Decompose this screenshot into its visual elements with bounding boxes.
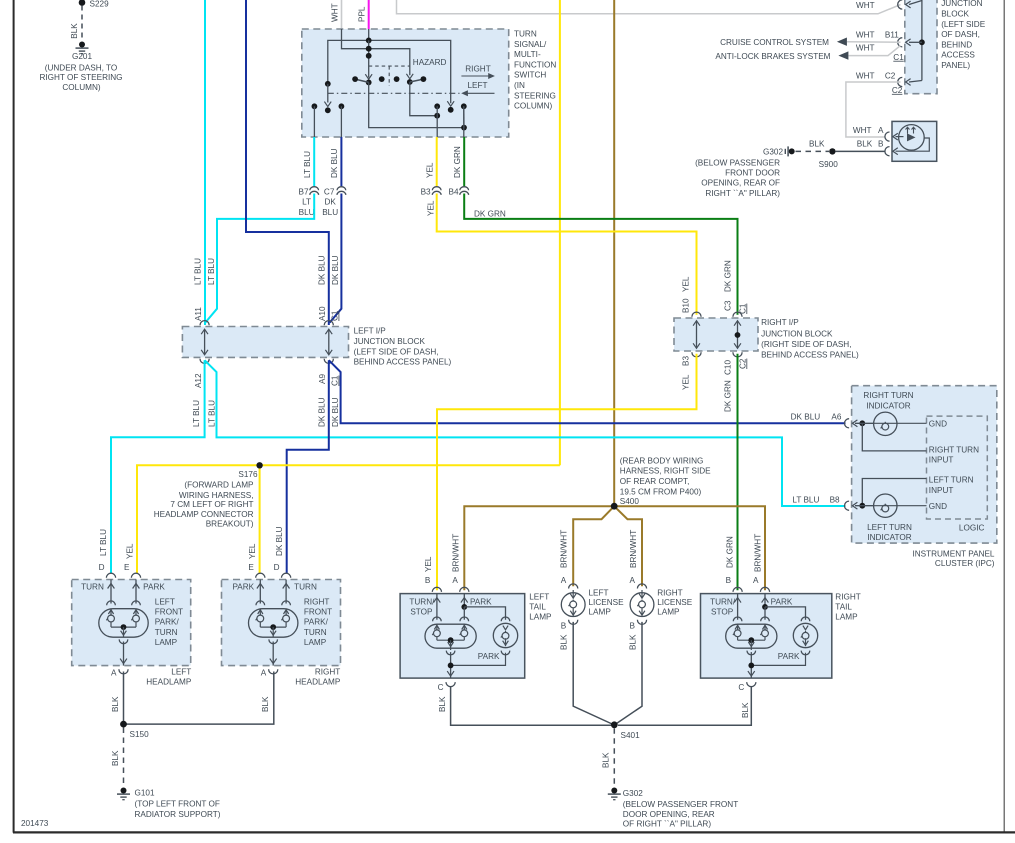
turn signal linkage dashed <box>328 92 460 94</box>
svg-text:SWITCH: SWITCH <box>514 71 546 80</box>
svg-text:DK BLU: DK BLU <box>331 397 340 427</box>
svg-text:PANEL): PANEL) <box>941 61 970 70</box>
ground G302 right <box>789 148 795 154</box>
pin feeds <box>436 594 438 620</box>
pin B10 <box>692 312 701 317</box>
svg-text:A12: A12 <box>194 373 203 388</box>
bulb dual filament turn/stop <box>433 617 442 621</box>
wire WHT to junction block <box>397 0 901 14</box>
svg-text:LAMP: LAMP <box>304 638 327 647</box>
svg-text:HEADLAMP: HEADLAMP <box>146 678 192 687</box>
turn switch left section <box>325 81 331 87</box>
svg-text:(IN: (IN <box>514 81 525 90</box>
lamp box LEFT tail <box>400 594 525 679</box>
bulb right turn indicator <box>859 420 865 426</box>
wire WHT anti-lock brakes to B11 <box>848 46 900 56</box>
svg-text:PARK: PARK <box>778 652 800 661</box>
svg-text:LT BLU: LT BLU <box>192 400 201 427</box>
bulb left turn indicator <box>859 503 865 509</box>
svg-text:MULTI-: MULTI- <box>514 50 541 59</box>
svg-text:LAMP: LAMP <box>657 608 680 617</box>
svg-text:BLK: BLK <box>261 696 270 712</box>
svg-text:B3: B3 <box>421 188 431 197</box>
pin A12 <box>200 359 209 364</box>
svg-text:BLOCK: BLOCK <box>941 10 969 19</box>
svg-text:WHT: WHT <box>856 71 875 80</box>
svg-text:GND: GND <box>929 420 947 429</box>
svg-text:SIGNAL/: SIGNAL/ <box>514 40 547 49</box>
wire LT BLU A12 to left front lamp <box>111 360 205 573</box>
svg-text:BLK: BLK <box>809 139 825 148</box>
svg-text:BLK: BLK <box>857 139 873 148</box>
svg-text:LEFT: LEFT <box>467 81 487 90</box>
svg-text:DK GRN: DK GRN <box>724 380 733 412</box>
svg-text:OPENING, REAR OF: OPENING, REAR OF <box>701 179 780 188</box>
svg-text:B4: B4 <box>448 188 458 197</box>
svg-text:DK BLU: DK BLU <box>791 413 821 422</box>
svg-text:LAMP: LAMP <box>835 613 858 622</box>
svg-text:LT BLU: LT BLU <box>207 258 216 285</box>
svg-text:PARK: PARK <box>478 652 500 661</box>
svg-text:RIGHT OF STEERING: RIGHT OF STEERING <box>39 73 122 82</box>
svg-text:ACCESS: ACCESS <box>941 51 975 60</box>
svg-text:HEADLAMP: HEADLAMP <box>295 678 341 687</box>
svg-text:A11: A11 <box>194 307 203 321</box>
svg-text:WHT: WHT <box>856 1 875 10</box>
svg-text:A: A <box>878 126 884 135</box>
connector B7 LT BLU <box>313 137 315 188</box>
svg-text:WHT: WHT <box>856 43 875 52</box>
svg-text:BLK: BLK <box>111 696 120 712</box>
svg-text:LAMP: LAMP <box>589 608 612 617</box>
svg-text:A9: A9 <box>318 374 327 384</box>
svg-text:LEFT I/P: LEFT I/P <box>354 327 387 336</box>
logic box <box>927 416 988 519</box>
pin A output <box>123 642 125 666</box>
wire DK BLU A9 to IPC A6 <box>329 360 846 423</box>
svg-text:INPUT: INPUT <box>929 486 954 495</box>
connector B3 YEL <box>436 137 438 188</box>
svg-text:RIGHT TURN: RIGHT TURN <box>929 445 979 454</box>
page border left <box>13 0 15 833</box>
wire BRN/WHT S400 to left tail lamp <box>464 506 614 590</box>
svg-text:JUNCTION BLOCK: JUNCTION BLOCK <box>354 337 426 346</box>
wire BLK right tail lamp to S401 <box>618 686 751 725</box>
svg-text:TAIL: TAIL <box>529 603 546 612</box>
svg-text:19.5 CM FROM P400): 19.5 CM FROM P400) <box>620 487 702 496</box>
svg-text:BLU: BLU <box>299 208 315 217</box>
switch internal bus upper <box>328 40 451 103</box>
svg-text:B: B <box>726 576 732 585</box>
svg-text:YEL: YEL <box>427 200 436 216</box>
svg-text:COLUMN): COLUMN) <box>514 102 552 111</box>
svg-text:DK GRN: DK GRN <box>474 209 506 218</box>
pin B11 <box>898 38 903 47</box>
svg-text:LAMP: LAMP <box>529 613 552 622</box>
svg-text:E: E <box>124 563 130 572</box>
splice S900 <box>829 148 835 154</box>
svg-text:S900: S900 <box>819 160 839 169</box>
svg-text:BLK: BLK <box>438 696 447 712</box>
connector A6 <box>844 419 849 428</box>
svg-text:(UNDER DASH, TO: (UNDER DASH, TO <box>45 64 117 73</box>
junction block right I/P <box>674 318 758 351</box>
svg-text:TURN: TURN <box>81 582 104 591</box>
wire LT BLU A12 to IPC B8 <box>205 360 846 506</box>
svg-text:BRN/WHT: BRN/WHT <box>629 530 638 568</box>
svg-text:A: A <box>261 668 267 677</box>
svg-text:BRN/WHT: BRN/WHT <box>451 534 460 572</box>
svg-text:S150: S150 <box>130 730 150 739</box>
splice S176 <box>256 462 262 468</box>
splice S229 <box>79 0 86 6</box>
svg-text:(REAR BODY WIRING: (REAR BODY WIRING <box>620 456 704 465</box>
svg-text:BEHIND ACCESS PANEL): BEHIND ACCESS PANEL) <box>761 351 859 360</box>
wire LT BLU B7 to A11 <box>205 194 314 323</box>
bulb dual filament <box>259 580 261 604</box>
wire BLK S900 to G302 <box>796 150 830 152</box>
svg-text:WHT: WHT <box>853 126 872 135</box>
bulb park round <box>501 617 510 621</box>
svg-text:C2: C2 <box>892 86 903 95</box>
svg-text:CRUISE CONTROL SYSTEM: CRUISE CONTROL SYSTEM <box>720 38 829 47</box>
svg-text:RIGHT I/P: RIGHT I/P <box>761 318 799 327</box>
wire BLK left tail lamp to S401 <box>451 686 611 725</box>
wire YEL trunk from top <box>559 0 561 465</box>
wire BLK left headlamp to S150 <box>123 672 125 725</box>
svg-text:LICENSE: LICENSE <box>589 598 625 607</box>
page border right <box>1003 0 1005 833</box>
svg-text:YEL: YEL <box>424 556 433 572</box>
svg-text:FUNCTION: FUNCTION <box>514 60 556 69</box>
svg-text:S229: S229 <box>90 0 110 9</box>
pin C output <box>748 671 755 676</box>
svg-text:A: A <box>111 668 117 677</box>
svg-text:C1: C1 <box>331 375 340 386</box>
svg-text:A: A <box>561 576 567 585</box>
svg-text:LT BLU: LT BLU <box>207 400 216 427</box>
svg-text:(FORWARD LAMP: (FORWARD LAMP <box>184 481 254 490</box>
junction block upper right <box>905 0 937 94</box>
bulb CHMSL <box>899 125 925 151</box>
lamp box RIGHT tail <box>701 594 832 679</box>
svg-text:D: D <box>274 563 280 572</box>
splice S400 <box>611 503 618 510</box>
pin top WHT <box>898 0 903 9</box>
switch wire hazard-right to B3 out <box>410 82 437 116</box>
svg-text:LEFT TURN: LEFT TURN <box>929 476 974 485</box>
svg-text:OF RIGHT ``A" PILLAR): OF RIGHT ``A" PILLAR) <box>623 820 712 829</box>
pin arcs and letters <box>106 573 115 578</box>
svg-text:E: E <box>248 563 254 572</box>
node A split <box>461 604 467 610</box>
wire BLK S150 to G101 <box>123 728 125 787</box>
svg-text:B: B <box>630 622 636 631</box>
hazard switch right pole <box>406 74 413 79</box>
svg-text:JUNCTION: JUNCTION <box>941 0 982 8</box>
svg-text:TURN: TURN <box>155 628 178 637</box>
svg-text:C1: C1 <box>893 53 904 62</box>
svg-text:STOP: STOP <box>410 608 433 617</box>
svg-text:CLUSTER (IPC): CLUSTER (IPC) <box>935 559 995 568</box>
svg-text:LEFT TURN: LEFT TURN <box>867 523 912 532</box>
svg-text:PARK/: PARK/ <box>304 618 329 627</box>
lamp left license <box>569 584 578 589</box>
wire LT BLU trunk to A11 <box>204 0 206 325</box>
svg-text:B: B <box>878 139 884 148</box>
svg-text:TURN: TURN <box>514 30 537 39</box>
svg-text:LT BLU: LT BLU <box>303 151 312 178</box>
wire hazard feed vertical <box>368 40 370 77</box>
pin A output <box>272 642 274 666</box>
wire YEL B3 to right junction B10 <box>437 194 697 315</box>
svg-text:201473: 201473 <box>21 819 49 828</box>
svg-text:B: B <box>425 576 431 585</box>
svg-text:(TOP LEFT FRONT OF: (TOP LEFT FRONT OF <box>135 800 220 809</box>
svg-text:A: A <box>630 576 636 585</box>
svg-text:INPUT: INPUT <box>929 456 954 465</box>
svg-text:B3: B3 <box>681 356 690 366</box>
svg-text:INSTRUMENT PANEL: INSTRUMENT PANEL <box>912 550 994 559</box>
svg-text:YEL: YEL <box>426 162 435 178</box>
wire YEL S176 branch to right front lamp <box>259 465 261 573</box>
splice S150 <box>120 721 127 728</box>
svg-text:RIGHT: RIGHT <box>835 593 860 602</box>
svg-text:YEL: YEL <box>681 374 690 390</box>
svg-text:DK BLU: DK BLU <box>318 397 327 427</box>
svg-text:PARK: PARK <box>771 597 793 606</box>
wire BRN/WHT S400 to right tail lamp <box>614 506 765 590</box>
wire BRN/WHT trunk from top to S400 <box>613 0 615 506</box>
svg-text:RADIATOR SUPPORT): RADIATOR SUPPORT) <box>135 810 221 819</box>
wire right turn input <box>862 423 926 451</box>
svg-text:DK: DK <box>325 197 337 206</box>
node ground join <box>751 653 805 666</box>
svg-text:OF DASH,: OF DASH, <box>941 30 980 39</box>
svg-text:BLK: BLK <box>602 752 611 768</box>
svg-text:JUNCTION BLOCK: JUNCTION BLOCK <box>761 330 833 339</box>
svg-text:RIGHT: RIGHT <box>304 598 329 607</box>
svg-text:BLK: BLK <box>741 702 750 718</box>
svg-text:YEL: YEL <box>248 543 257 559</box>
svg-text:LT: LT <box>302 197 311 206</box>
switch box turn signal/multi-function <box>302 29 509 137</box>
pin arcs B and A <box>733 587 742 592</box>
svg-text:LT BLU: LT BLU <box>792 495 819 504</box>
bulb dual filament <box>110 580 112 604</box>
svg-text:BLK: BLK <box>560 634 569 650</box>
pin arcs and letters <box>256 573 265 578</box>
splice S401 <box>611 721 618 728</box>
svg-text:(RIGHT SIDE OF DASH,: (RIGHT SIDE OF DASH, <box>761 340 851 349</box>
svg-text:DK GRN: DK GRN <box>453 146 462 178</box>
svg-text:PPL: PPL <box>358 6 367 22</box>
svg-text:(LEFT SIDE OF DASH,: (LEFT SIDE OF DASH, <box>354 347 439 356</box>
junction block internal bus <box>921 0 923 81</box>
svg-text:DOOR OPENING, REAR: DOOR OPENING, REAR <box>623 810 715 819</box>
svg-text:HAZARD: HAZARD <box>413 58 447 67</box>
svg-text:B7: B7 <box>298 188 308 197</box>
svg-text:INDICATOR: INDICATOR <box>866 402 910 411</box>
wire DK BLU C7 to A10 <box>330 194 342 323</box>
svg-text:DK GRN: DK GRN <box>724 260 733 292</box>
svg-text:BLK: BLK <box>628 634 637 650</box>
node A split <box>762 604 768 610</box>
connector B8 <box>844 501 849 510</box>
svg-text:G201: G201 <box>72 52 92 61</box>
svg-text:BLU: BLU <box>322 208 338 217</box>
svg-text:PARK: PARK <box>143 582 165 591</box>
svg-text:A6: A6 <box>831 413 841 422</box>
instrument panel cluster box <box>852 386 997 543</box>
wire BLK CHMSL to S900 <box>836 150 886 152</box>
wire BRN/WHT S400 to right license lamp <box>614 506 642 586</box>
bulb dual filament turn/stop <box>733 617 742 621</box>
svg-text:YEL: YEL <box>126 543 135 559</box>
svg-text:C: C <box>438 683 444 692</box>
svg-text:B8: B8 <box>830 495 840 504</box>
arrow cruise control system <box>837 38 847 46</box>
connector C7 DK BLU <box>340 137 342 188</box>
svg-text:(BELOW PASSENGER: (BELOW PASSENGER <box>695 159 780 168</box>
svg-text:B11: B11 <box>885 30 899 39</box>
junction block left I/P <box>182 327 348 358</box>
connector B CHMSL <box>885 147 890 156</box>
ground G101 <box>121 788 127 794</box>
wire left turn input <box>862 479 926 506</box>
svg-text:D: D <box>99 563 105 572</box>
wire WHT cruise control to B11 <box>847 41 901 44</box>
svg-text:TURN/: TURN/ <box>710 597 736 606</box>
bulb park round <box>801 617 810 621</box>
svg-text:PARK/: PARK/ <box>155 618 180 627</box>
svg-text:BEHIND: BEHIND <box>941 40 972 49</box>
ground G201 <box>79 42 85 48</box>
svg-text:C1: C1 <box>738 303 747 314</box>
svg-text:BRN/WHT: BRN/WHT <box>753 534 762 572</box>
svg-text:G302: G302 <box>623 789 643 798</box>
svg-text:C1: C1 <box>331 310 340 321</box>
switch internal bus lower WHT feed <box>342 29 410 75</box>
pin C3 <box>733 312 742 317</box>
svg-text:S400: S400 <box>620 497 640 506</box>
svg-text:B: B <box>561 622 567 631</box>
svg-text:DK BLU: DK BLU <box>318 255 327 285</box>
svg-text:LAMP: LAMP <box>155 638 178 647</box>
svg-text:LEFT: LEFT <box>529 593 549 602</box>
wire YEL B3 return to left tail lamp <box>437 354 697 591</box>
svg-text:BREAKOUT): BREAKOUT) <box>206 520 254 529</box>
wire DK GRN B4 to right junction C3 <box>464 194 737 315</box>
node ground join <box>451 653 506 666</box>
wire BLK right license lamp to S401 <box>614 622 642 725</box>
wire BLK left license lamp to S401 <box>573 622 614 725</box>
connector B4 DK GRN <box>463 137 465 188</box>
pin C output <box>447 671 454 676</box>
svg-text:TURN/: TURN/ <box>409 597 435 606</box>
svg-text:C2: C2 <box>738 358 747 369</box>
svg-text:GND: GND <box>929 502 947 511</box>
svg-text:WHT: WHT <box>856 30 875 39</box>
svg-text:DK BLU: DK BLU <box>275 526 284 556</box>
svg-text:RIGHT ``A" PILLAR): RIGHT ``A" PILLAR) <box>705 189 780 198</box>
wire BLK S229 to G201 <box>81 6 83 42</box>
svg-text:LEFT: LEFT <box>589 588 609 597</box>
wire BLK S401 to G302 <box>613 728 615 786</box>
svg-text:RIGHT TURN: RIGHT TURN <box>863 391 913 400</box>
svg-text:A: A <box>452 576 458 585</box>
switch wire hazard-left to B4 out <box>369 82 464 127</box>
svg-text:FRONT: FRONT <box>155 608 183 617</box>
svg-text:BLK: BLK <box>70 23 79 39</box>
svg-text:A: A <box>753 576 759 585</box>
wire DK BLU trunk to A10 <box>246 0 329 325</box>
wire WHT C2 to CHMSL <box>846 82 901 137</box>
svg-text:BRN/WHT: BRN/WHT <box>559 530 568 568</box>
node PPL junction <box>368 29 370 40</box>
svg-text:LICENSE: LICENSE <box>657 598 693 607</box>
lamp right license <box>637 584 646 589</box>
svg-text:STEERING: STEERING <box>514 91 556 100</box>
pin B3 bottom <box>692 352 701 357</box>
wire BRN/WHT S400 to left license lamp <box>573 506 614 586</box>
svg-text:WIRING HARNESS,: WIRING HARNESS, <box>179 491 254 500</box>
pin C2 <box>898 77 903 86</box>
svg-text:LT BLU: LT BLU <box>194 258 203 285</box>
svg-text:C10: C10 <box>724 360 733 375</box>
wire DK GRN C10 to right tail lamp <box>737 354 739 591</box>
wire BLK right headlamp to S150 <box>124 672 274 725</box>
svg-text:C: C <box>738 683 744 692</box>
svg-text:YEL: YEL <box>681 276 690 292</box>
svg-text:WHT: WHT <box>331 3 340 22</box>
svg-text:STOP: STOP <box>711 608 734 617</box>
svg-text:LOGIC: LOGIC <box>959 523 985 532</box>
wire YEL trunk to S176 line <box>137 465 560 573</box>
turn switch right section <box>447 101 454 106</box>
svg-text:HARNESS, RIGHT SIDE: HARNESS, RIGHT SIDE <box>620 467 711 476</box>
switch output stubs to connector <box>313 106 315 137</box>
svg-text:C7: C7 <box>324 188 335 197</box>
page border bottom <box>13 831 1015 833</box>
svg-text:7 CM LEFT OF RIGHT: 7 CM LEFT OF RIGHT <box>170 500 253 509</box>
pin A11 <box>200 321 209 326</box>
svg-text:LT BLU: LT BLU <box>99 529 108 556</box>
svg-text:OF REAR COMPT,: OF REAR COMPT, <box>620 477 690 486</box>
svg-text:G302: G302 <box>763 148 783 157</box>
pin feeds <box>737 594 739 620</box>
svg-text:ANTI-LOCK BRAKES SYSTEM: ANTI-LOCK BRAKES SYSTEM <box>715 52 830 61</box>
hazard linkage dashed <box>369 65 410 67</box>
pin A10 <box>324 321 333 326</box>
svg-text:(LEFT SIDE: (LEFT SIDE <box>941 20 986 29</box>
svg-text:TURN: TURN <box>304 628 327 637</box>
center high mounted stop lamp box <box>892 121 937 161</box>
svg-text:FRONT: FRONT <box>304 608 332 617</box>
svg-text:TURN: TURN <box>294 582 317 591</box>
svg-text:RIGHT: RIGHT <box>315 667 340 676</box>
svg-text:A10: A10 <box>318 306 327 321</box>
svg-text:DK BLU: DK BLU <box>331 255 340 285</box>
svg-text:B10: B10 <box>681 298 690 313</box>
wire WHT into switch <box>341 0 343 29</box>
svg-text:LEFT: LEFT <box>171 667 191 676</box>
svg-text:C3: C3 <box>724 300 733 311</box>
svg-text:RIGHT: RIGHT <box>465 65 490 74</box>
svg-text:DK BLU: DK BLU <box>330 148 339 178</box>
pin arcs B and A <box>432 587 441 592</box>
ground G302 rear <box>611 788 617 794</box>
